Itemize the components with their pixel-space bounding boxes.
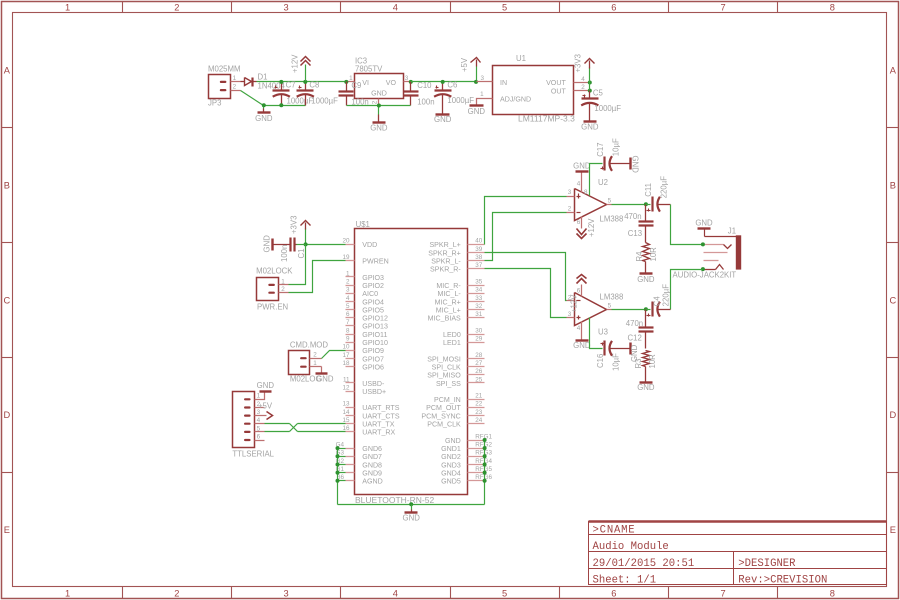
U$1 left pin 4 GPIO4 [346, 301, 355, 303]
svg-text:C12: C12 [628, 334, 642, 343]
svg-text:38: 38 [475, 254, 483, 261]
svg-text:VDD: VDD [362, 241, 377, 249]
U2 pin 2 inverting [567, 212, 575, 214]
svg-text:4: 4 [393, 588, 398, 598]
svg-text:C10: C10 [417, 81, 432, 90]
svg-text:UART_CTS: UART_CTS [362, 412, 400, 420]
wire U3 output [612, 309, 646, 311]
svg-text:470n: 470n [624, 212, 641, 221]
svg-text:4: 4 [577, 181, 581, 188]
U$1 left pin G4 GND6 [346, 448, 355, 450]
U1 pin 4 VOUT [574, 82, 590, 84]
U$1 left pin 10 GPIO9 [346, 350, 355, 352]
svg-text:3: 3 [284, 2, 289, 12]
svg-text:3: 3 [480, 75, 484, 82]
title block row dividers [589, 534, 887, 536]
U3 pin 2 inverting [567, 300, 575, 302]
U$1 left pin 18 GPIO6 [346, 366, 355, 368]
U1 pin 1 ADJ/GND [477, 99, 493, 106]
svg-text:U3: U3 [598, 328, 608, 337]
svg-text:100n: 100n [417, 98, 434, 107]
U1 pin 3 IN [477, 81, 493, 83]
supply +3V3 symbol at VDD [305, 229, 307, 245]
svg-text:22: 22 [475, 401, 483, 408]
capacitor C4 220uF [644, 307, 648, 311]
svg-text:28: 28 [475, 352, 483, 359]
U2 pin 3 noninverting [567, 196, 575, 198]
U$1 left pin 14 UART_CTS [346, 415, 355, 417]
svg-text:D: D [3, 410, 10, 420]
U$1 right pin RFG4 GND3 [468, 464, 485, 466]
svg-text:3: 3 [568, 189, 572, 196]
capacitor C11 220uF [644, 202, 648, 206]
U$1 right pin 33 MIC_R+ [468, 301, 485, 303]
ground at C17 rotated [629, 158, 631, 170]
U$1 left pin 1 GPIO3 [346, 276, 355, 278]
svg-text:C7: C7 [286, 81, 296, 90]
svg-text:34: 34 [475, 287, 483, 294]
supply +3V3 symbol at U1 [589, 68, 591, 83]
connector JP3 M025MM [209, 75, 231, 99]
J1 tip contact [704, 244, 724, 246]
svg-text:U1: U1 [516, 54, 526, 63]
svg-text:1000µF: 1000µF [594, 104, 621, 113]
svg-text:GPIO12: GPIO12 [362, 315, 388, 323]
supply +12V symbol [305, 65, 307, 82]
svg-text:GND: GND [255, 114, 273, 123]
wire CMD.MOD pin2 to GPIO9 [322, 351, 346, 359]
svg-text:2: 2 [233, 83, 237, 90]
U$1 left pin G1 GND9 [346, 472, 355, 474]
svg-text:GPIO9: GPIO9 [362, 347, 384, 355]
svg-text:GND6: GND6 [362, 445, 382, 453]
svg-text:37: 37 [475, 262, 483, 269]
svg-text:5: 5 [608, 197, 612, 204]
svg-text:9: 9 [346, 336, 350, 343]
svg-text:GND9: GND9 [362, 469, 382, 477]
ground under JP3 [263, 106, 265, 109]
U2 pin 5 output [607, 204, 612, 206]
svg-text:100n: 100n [280, 245, 289, 262]
svg-text:B: B [4, 181, 10, 191]
U$1 right pin RFG1 GND [468, 440, 485, 442]
U$1 right pin RFG6 GND5 [468, 480, 485, 482]
capacitor C8 1000uF [305, 82, 307, 90]
svg-text:GPIO2: GPIO2 [362, 282, 384, 290]
U$1 right pin 37 SPKR_R- [468, 268, 485, 270]
ground under IC3 [378, 106, 380, 115]
U$1 left pin 13 UART_RTS [346, 407, 355, 409]
svg-text:GPIO11: GPIO11 [362, 331, 387, 339]
svg-text:470n: 470n [626, 319, 643, 328]
U$1 right pin 27 SPI_CLK [468, 366, 485, 368]
svg-text:GND: GND [573, 162, 591, 171]
svg-text:+3V3: +3V3 [290, 216, 299, 234]
svg-text:13: 13 [342, 401, 350, 408]
svg-text:14: 14 [342, 409, 350, 416]
U$1 left pin 17 GPIO7 [346, 358, 355, 360]
svg-text:2: 2 [581, 84, 585, 91]
svg-text:VI: VI [362, 79, 369, 87]
U$1 left pin 9 GPIO10 [346, 342, 355, 344]
wire +12V rail [257, 81, 347, 83]
svg-text:CMD.MOD: CMD.MOD [290, 341, 328, 350]
U$1 right pin 28 SPI_MOSI [468, 358, 485, 360]
svg-text:Rev:>CREVISION: Rev:>CREVISION [738, 575, 827, 587]
svg-text:GND8: GND8 [362, 461, 382, 469]
connector TTLSERIAL [233, 392, 255, 448]
svg-text:6: 6 [257, 433, 261, 440]
U2 pin 4 ground top [581, 173, 583, 193]
wire +5V rail [411, 81, 477, 83]
U3 pin 7 bypass [590, 318, 603, 349]
svg-text:1000µF: 1000µF [447, 96, 474, 105]
svg-text:7: 7 [721, 588, 726, 598]
svg-text:UART_TX: UART_TX [362, 421, 394, 429]
IC3 pin 2 GND [378, 99, 380, 106]
svg-text:SPKR_L+: SPKR_L+ [429, 241, 460, 249]
svg-text:C5: C5 [593, 89, 604, 98]
svg-text:1: 1 [346, 270, 350, 277]
svg-text:8: 8 [830, 2, 835, 12]
capacitor C6 1000uF [442, 82, 444, 90]
svg-text:GND: GND [468, 107, 486, 116]
title block outline [589, 522, 887, 585]
svg-text:6: 6 [577, 219, 581, 226]
U$1 right pin 32 MIC_L+ [468, 309, 485, 311]
U$1 right pin 39 SPKR_R+ [468, 252, 485, 254]
svg-text:7: 7 [721, 2, 726, 12]
svg-text:D: D [889, 410, 896, 420]
svg-text:GND: GND [630, 156, 639, 174]
svg-text:GND: GND [371, 89, 387, 97]
U$1 right pin 22 PCM_OUT [468, 407, 485, 409]
svg-text:2: 2 [174, 2, 179, 12]
wire SPKR_R- to U3 pin3 [485, 269, 567, 318]
frame column tick marks bottom [122, 587, 124, 599]
U$1 right pin 30 LED0 [468, 334, 485, 336]
svg-text:4: 4 [577, 325, 581, 332]
svg-text:GND1: GND1 [441, 445, 461, 453]
svg-text:GND3: GND3 [441, 461, 461, 469]
svg-text:GND: GND [370, 123, 388, 132]
svg-text:C4: C4 [653, 296, 662, 307]
svg-text:GND: GND [695, 219, 713, 228]
ground at J1 [698, 227, 711, 229]
svg-text:10R: 10R [649, 247, 658, 262]
connector PWR.EN M02LOCK [257, 278, 279, 301]
svg-text:C11: C11 [644, 183, 653, 197]
svg-text:1: 1 [65, 588, 70, 598]
U3 pin 3 noninverting [567, 317, 575, 319]
U$1 right pin 38 SPKR_L- [468, 260, 485, 262]
svg-text:6: 6 [577, 287, 581, 294]
svg-text:GND: GND [637, 275, 655, 284]
svg-text:SPI_CLK: SPI_CLK [432, 363, 461, 371]
svg-text:10µF: 10µF [611, 353, 620, 371]
ground at C1 rotated [271, 239, 273, 251]
svg-text:2: 2 [568, 206, 572, 213]
svg-text:AUDIO-JACK2KIT: AUDIO-JACK2KIT [673, 271, 737, 280]
svg-text:3: 3 [405, 75, 409, 82]
svg-text:8: 8 [830, 588, 835, 598]
svg-text:40: 40 [475, 238, 483, 245]
IC U$1 BLUETOOTH-RN-52 body [355, 229, 468, 495]
svg-text:GPIO13: GPIO13 [362, 323, 388, 331]
svg-text:SPI_MISO: SPI_MISO [427, 372, 461, 380]
wire SPKR_L+ to U2 pin3 [485, 197, 567, 245]
svg-text:LED1: LED1 [443, 339, 461, 347]
U1 pin 2 OUT [574, 90, 590, 92]
svg-text:1: 1 [65, 2, 70, 12]
svg-text:VOUT: VOUT [546, 79, 566, 87]
svg-text:MIC_R+: MIC_R+ [435, 298, 461, 306]
svg-text:GND: GND [434, 115, 452, 124]
wire C11 to jack tip [671, 205, 703, 245]
svg-text:GND: GND [403, 514, 421, 523]
svg-text:7805TV: 7805TV [355, 65, 383, 74]
supply +5V symbol [476, 67, 478, 82]
U$1 right pin RFG5 GND4 [468, 472, 485, 474]
J1 ring contact [704, 260, 719, 262]
regulator U1 LM1117MP-3.3 [493, 66, 574, 115]
svg-text:GND5: GND5 [441, 478, 461, 486]
svg-text:17: 17 [342, 352, 350, 359]
svg-text:GND: GND [316, 375, 334, 384]
svg-text:GND7: GND7 [362, 453, 382, 461]
U3 pin 5 output [607, 309, 612, 311]
svg-text:3: 3 [346, 287, 350, 294]
U$1 right pin 21 PCM_IN [468, 399, 485, 401]
svg-text:PCM_IN: PCM_IN [434, 396, 461, 404]
svg-text:7: 7 [346, 319, 350, 326]
svg-text:1000µF: 1000µF [287, 96, 314, 105]
svg-text:>DESIGNER: >DESIGNER [738, 558, 796, 570]
svg-text:M025MM: M025MM [208, 64, 241, 73]
svg-text:BLUETOOTH-RN-52: BLUETOOTH-RN-52 [355, 495, 434, 505]
frame row tick marks right [887, 127, 899, 129]
svg-text:C17: C17 [596, 142, 605, 156]
U2 pin 6 supply bottom [581, 217, 583, 229]
svg-text:10R: 10R [648, 354, 657, 369]
svg-text:USBD-: USBD- [362, 380, 385, 388]
U$1 left pin 36 AGND [346, 480, 355, 482]
svg-text:PCM_OUT: PCM_OUT [426, 404, 461, 412]
svg-text:LM388: LM388 [600, 292, 624, 301]
title block column divider [733, 552, 735, 585]
svg-text:GND: GND [637, 383, 655, 392]
svg-text:GPIO4: GPIO4 [362, 298, 384, 306]
svg-text:2: 2 [281, 286, 285, 293]
svg-text:TTLSERIAL: TTLSERIAL [232, 450, 274, 459]
capacitor C10 100n [410, 82, 412, 92]
svg-text:29/01/2015 20:51: 29/01/2015 20:51 [593, 558, 695, 570]
svg-text:J1: J1 [728, 227, 736, 236]
svg-text:M02LOCK: M02LOCK [256, 267, 293, 276]
svg-text:E: E [890, 525, 896, 535]
wire regulator ground bus [347, 105, 411, 107]
U$1 right pin RFG3 GND2 [468, 456, 485, 458]
svg-text:+3V3: +3V3 [574, 54, 583, 72]
frame row tick marks left [2, 127, 13, 129]
ground at CMD.MOD pin1 [321, 367, 323, 374]
U$1 right pin RFG2 GND1 [468, 448, 485, 450]
svg-text:GND: GND [257, 381, 275, 390]
svg-text:2: 2 [346, 278, 350, 285]
svg-text:5: 5 [502, 2, 507, 12]
svg-text:+5V: +5V [460, 57, 469, 72]
wire U2 output [612, 204, 646, 206]
voltage regulator IC3 7805TV [355, 74, 404, 99]
capacitor C9 100n [346, 82, 348, 92]
U$1 right pin 25 SPI_SS [468, 382, 485, 384]
U3 pin 6 supply top [581, 285, 583, 297]
svg-text:2: 2 [372, 100, 379, 104]
svg-text:5: 5 [502, 588, 507, 598]
wire SPKR_L- to U2 pin2 [485, 213, 567, 261]
op-amp U2 LM388 triangle [575, 189, 607, 221]
svg-text:5: 5 [608, 303, 612, 310]
U$1 left pin G3 GND7 [346, 456, 355, 458]
op-amp U3 LM388 triangle [575, 293, 607, 326]
svg-text:27: 27 [475, 360, 483, 367]
svg-text:C: C [889, 295, 896, 305]
svg-text:ADJ/GND: ADJ/GND [500, 95, 531, 103]
connector CMD.MOD M02LOG [289, 351, 310, 375]
svg-text:UART_RTS: UART_RTS [362, 404, 399, 412]
svg-text:A: A [4, 66, 11, 76]
U$1 left pin 2 GPIO2 [346, 285, 355, 287]
svg-text:33: 33 [475, 295, 483, 302]
svg-text:Audio Module: Audio Module [593, 541, 669, 553]
svg-text:UART_RX: UART_RX [362, 429, 395, 437]
U$1 right pin 34 MIC_L- [468, 293, 485, 295]
U$1 right pin 40 SPKR_L+ [468, 244, 485, 246]
U$1 right pin 26 SPI_MISO [468, 374, 485, 376]
svg-text:5: 5 [346, 303, 350, 310]
wire jack ring to C4 [671, 270, 703, 310]
svg-text:>CNAME: >CNAME [593, 524, 636, 536]
ground at C16 rotated [629, 343, 631, 355]
svg-text:R4: R4 [635, 251, 644, 262]
U$1 left pin 15 UART_TX [346, 423, 355, 425]
svg-text:1: 1 [233, 75, 237, 82]
IC3 pin 3 [404, 81, 411, 83]
svg-text:GND: GND [581, 123, 599, 132]
svg-text:PWR.EN: PWR.EN [257, 303, 288, 312]
wire VDD net [306, 244, 346, 246]
svg-text:1: 1 [480, 91, 484, 98]
svg-text:24: 24 [475, 417, 483, 424]
wire 3V3 output [589, 83, 591, 91]
svg-text:29: 29 [475, 336, 483, 343]
svg-text:6: 6 [611, 2, 616, 12]
wire PWR.EN pin2 to PWREN [289, 261, 346, 293]
svg-text:IN: IN [500, 79, 507, 87]
U$1 left pin 19 PWREN [346, 260, 355, 262]
svg-text:1000µF: 1000µF [311, 96, 338, 105]
svg-text:1: 1 [281, 278, 285, 285]
svg-text:220µF: 220µF [662, 284, 671, 307]
svg-text:1: 1 [313, 360, 317, 367]
svg-text:+12V: +12V [587, 218, 596, 237]
svg-text:GND: GND [573, 341, 591, 350]
U$1 left pin G2 GND8 [346, 464, 355, 466]
svg-text:GPIO3: GPIO3 [362, 274, 384, 282]
svg-text:PCM_CLK: PCM_CLK [427, 421, 461, 429]
resistor R4 10R [643, 243, 650, 262]
wire U$1 bottom ground bus [338, 504, 485, 506]
diode D1 1N4004 [241, 81, 245, 83]
svg-text:21: 21 [475, 393, 483, 400]
svg-text:SPKR_L-: SPKR_L- [431, 258, 461, 266]
svg-text:PWREN: PWREN [362, 258, 388, 266]
svg-text:39: 39 [475, 246, 483, 253]
capacitor C12 470n [645, 310, 647, 328]
frame column tick marks top [122, 2, 124, 13]
svg-text:35: 35 [475, 278, 483, 285]
svg-text:31: 31 [475, 311, 483, 318]
svg-text:11: 11 [343, 376, 350, 383]
svg-text:20: 20 [342, 238, 350, 245]
svg-text:4: 4 [346, 295, 350, 302]
U$1 right pin 29 LED1 [468, 342, 485, 344]
svg-text:4: 4 [393, 2, 398, 12]
svg-text:U$1: U$1 [356, 220, 370, 229]
TTLSERIAL pin6 stub [255, 440, 265, 442]
svg-text:GPIO10: GPIO10 [362, 339, 388, 347]
svg-text:+5V: +5V [258, 401, 273, 410]
ground under U$1 [409, 502, 413, 506]
wire JP3 pin2 to GND [241, 91, 306, 106]
capacitor C1 100n [297, 244, 306, 246]
svg-text:AGND: AGND [362, 478, 383, 486]
IC3 pin 1 [347, 81, 355, 83]
svg-text:GND: GND [263, 235, 272, 253]
svg-text:GPIO5: GPIO5 [362, 306, 384, 314]
capacitor C5 1000uF [589, 91, 591, 98]
svg-text:SPKR_R-: SPKR_R- [430, 266, 461, 274]
svg-text:JP3: JP3 [208, 99, 221, 108]
svg-text:+12V: +12V [291, 54, 300, 73]
wire SPKR_R+ to U3 pin2 [485, 253, 567, 301]
svg-text:C1: C1 [297, 249, 306, 259]
svg-text:GPIO7: GPIO7 [362, 355, 384, 363]
U$1 left pin 3 AIC0 [346, 293, 355, 295]
svg-text:23: 23 [475, 409, 483, 416]
U$1 left pin 11 USBD- [346, 382, 355, 384]
svg-text:LED0: LED0 [443, 331, 461, 339]
connector J1 AUDIO-JACK2KIT [704, 229, 706, 237]
capacitor C7 1000uF [281, 82, 283, 90]
svg-text:GND4: GND4 [441, 469, 461, 477]
svg-text:SPI_MOSI: SPI_MOSI [427, 355, 461, 363]
svg-text:AIC0: AIC0 [362, 290, 378, 298]
U$1 left pin 7 GPIO13 [346, 325, 355, 327]
svg-text:LM1117MP-3.3: LM1117MP-3.3 [518, 114, 575, 124]
TTLSERIAL pin3 +5V arrow [255, 415, 267, 417]
svg-text:GND2: GND2 [441, 453, 461, 461]
svg-text:2: 2 [313, 352, 317, 359]
U$1 right pin 31 MIC_BIAS [468, 317, 485, 319]
U$1 left pin 6 GPIO12 [346, 317, 355, 319]
svg-text:32: 32 [475, 303, 483, 310]
wire PWR.EN pin1 to 3V3 [289, 245, 306, 285]
svg-text:30: 30 [475, 327, 483, 334]
svg-text:C13: C13 [628, 229, 642, 238]
svg-text:B: B [890, 181, 896, 191]
svg-text:U2: U2 [598, 178, 608, 187]
